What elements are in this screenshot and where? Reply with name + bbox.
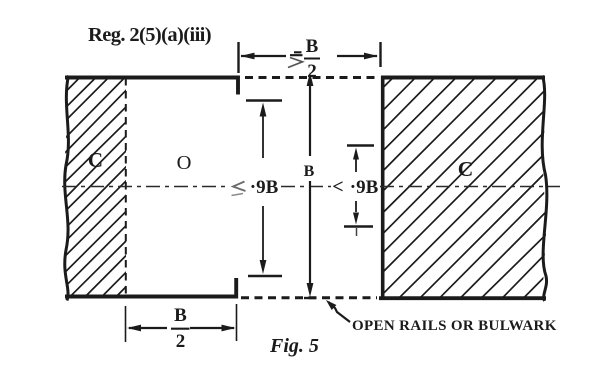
svg-text:·9B: ·9B — [350, 177, 379, 198]
svg-text:2: 2 — [176, 331, 186, 352]
svg-text:Fig. 5: Fig. 5 — [269, 335, 319, 357]
svg-text:OPEN RAILS OR BULWARK: OPEN RAILS OR BULWARK — [352, 318, 557, 334]
svg-text:O: O — [177, 152, 192, 174]
svg-text:C: C — [88, 148, 103, 172]
svg-text:B: B — [306, 36, 319, 57]
svg-text:Reg. 2(5)(a)(iii): Reg. 2(5)(a)(iii) — [88, 24, 211, 46]
svg-text:·9B: ·9B — [250, 177, 279, 198]
svg-text:C: C — [458, 157, 474, 181]
svg-text:B: B — [304, 163, 315, 180]
svg-text:B: B — [174, 305, 187, 326]
svg-text:<: < — [332, 176, 343, 198]
